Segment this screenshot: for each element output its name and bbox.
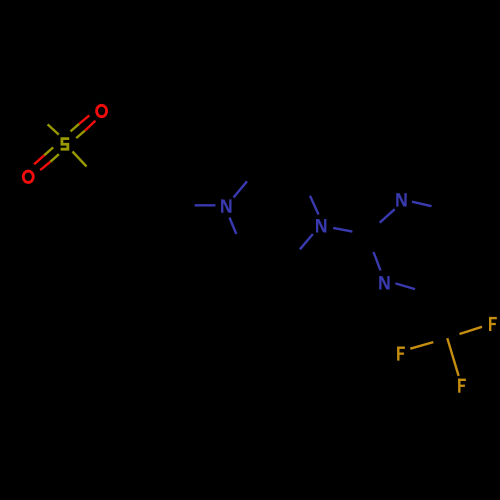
wire S=O1 line-a olive: [71, 124, 80, 132]
wire N4-C2pym half-bond: [374, 252, 381, 271]
wire S-ring half-bond: [73, 152, 87, 167]
fluorine F1: [489, 317, 497, 331]
wire S=O1 line-a red: [79, 115, 89, 123]
wire S=O1 line-b red: [85, 121, 96, 131]
fluorine F3: [458, 379, 466, 393]
nitrogen N3: [397, 193, 405, 207]
wire N4-C6 half-bond: [395, 283, 415, 289]
wire N2-Cb half-bond: [310, 196, 319, 215]
wire N1-Ca half-bond: [234, 181, 248, 197]
wire S-CH3 half-bond: [48, 124, 59, 134]
wire N2-Cc half-bond: [300, 234, 313, 249]
nitrogen N2: [317, 219, 325, 233]
wire C-F1 half-bond: [460, 327, 483, 334]
wire C-F3 half-bond: [447, 338, 458, 376]
wire S=O2 line-b red: [40, 162, 50, 170]
wire N1-Cd half-bond: [230, 218, 237, 235]
fluorine F2: [397, 347, 405, 361]
wire S=O2 line-a red: [34, 155, 44, 164]
wire ring-N1 half-bond: [195, 204, 216, 206]
wire C-F2 half-bond: [410, 342, 433, 349]
wire N3-C4 half-bond: [412, 202, 432, 207]
nitrogen N4: [380, 276, 388, 290]
wire S=O2 line-a olive: [44, 147, 53, 155]
oxygen O2: [23, 171, 33, 182]
wire S=O2 line-b olive: [50, 154, 59, 162]
sulfur S: [61, 139, 70, 150]
nitrogen N1: [222, 199, 230, 213]
wire N2-C2pym half-bond: [333, 228, 352, 232]
oxygen O1: [97, 105, 107, 116]
wire S=O1 line-b olive: [76, 131, 85, 139]
wire N3-C2pym half-bond: [380, 209, 395, 223]
